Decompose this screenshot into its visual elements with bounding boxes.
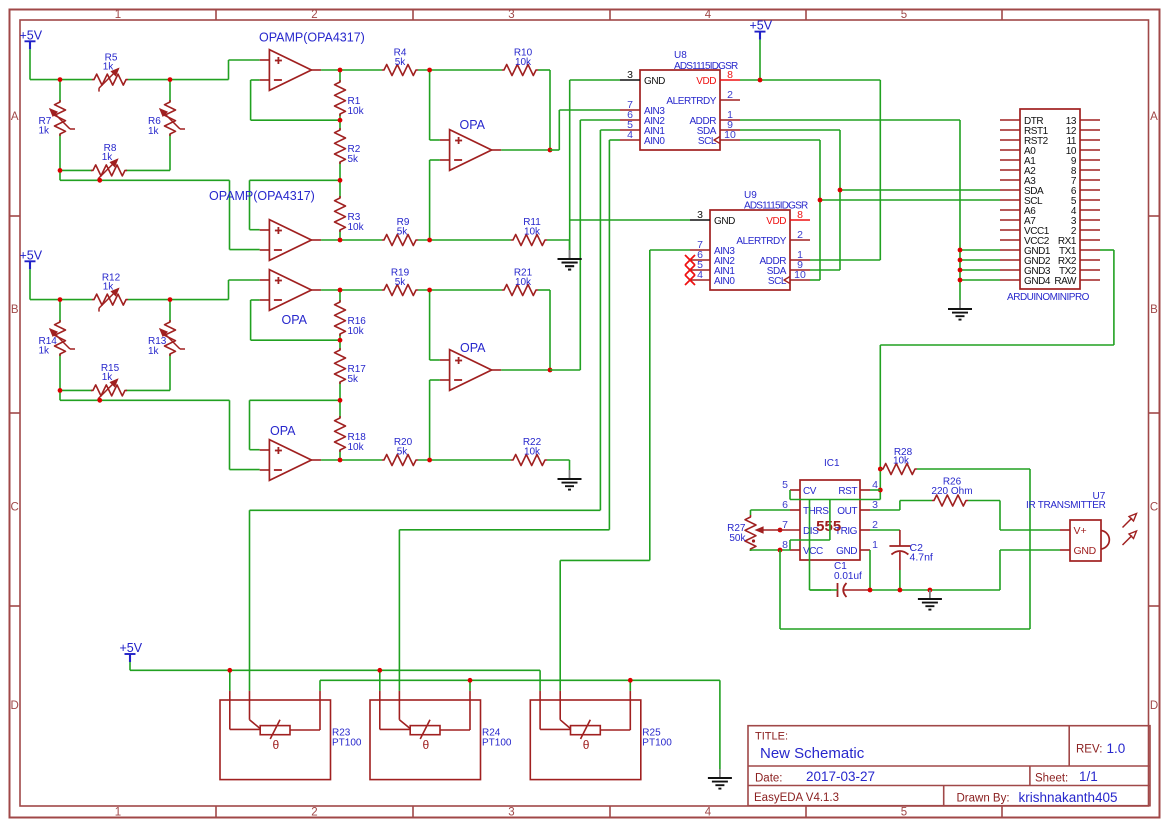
- svg-text:+5V: +5V: [750, 19, 773, 33]
- svg-text:10k: 10k: [348, 222, 365, 233]
- svg-text:A: A: [11, 111, 19, 123]
- svg-text:V+: V+: [1074, 525, 1087, 537]
- svg-text:+5V: +5V: [20, 28, 43, 42]
- svg-text:5k: 5k: [395, 57, 407, 68]
- svg-text:REV:: REV:: [1076, 744, 1102, 756]
- svg-text:10k: 10k: [524, 447, 541, 458]
- svg-text:5k: 5k: [395, 277, 407, 288]
- svg-text:3: 3: [697, 209, 703, 221]
- svg-text:SCL: SCL: [768, 276, 787, 287]
- svg-text:GND: GND: [836, 546, 857, 557]
- svg-text:2: 2: [311, 807, 317, 819]
- svg-text:PT100: PT100: [332, 738, 362, 749]
- svg-text:ALERTRDY: ALERTRDY: [736, 236, 786, 247]
- svg-text:OPA: OPA: [282, 313, 308, 327]
- svg-text:OPAMP(OPA4317): OPAMP(OPA4317): [259, 31, 365, 45]
- svg-text:+5V: +5V: [20, 248, 43, 262]
- svg-text:B: B: [1150, 304, 1158, 316]
- svg-text:CV: CV: [803, 486, 817, 497]
- svg-text:GND: GND: [714, 216, 735, 227]
- svg-text:SCL: SCL: [698, 136, 717, 147]
- svg-text:3: 3: [508, 9, 514, 21]
- svg-text:2: 2: [727, 89, 733, 101]
- svg-text:1.0: 1.0: [1107, 741, 1126, 756]
- svg-text:10k: 10k: [348, 326, 365, 337]
- svg-text:10k: 10k: [515, 277, 532, 288]
- svg-text:1k: 1k: [103, 282, 115, 293]
- svg-text:10k: 10k: [348, 442, 365, 453]
- svg-text:1k: 1k: [148, 126, 160, 137]
- svg-text:3: 3: [508, 807, 514, 819]
- svg-text:GND4: GND4: [1024, 276, 1051, 287]
- svg-text:OPA: OPA: [460, 118, 486, 132]
- svg-text:VCC: VCC: [803, 546, 823, 557]
- svg-text:RST: RST: [838, 486, 857, 497]
- svg-text:B: B: [11, 304, 19, 316]
- svg-text:U8: U8: [674, 50, 687, 61]
- svg-text:50k: 50k: [729, 533, 746, 544]
- svg-text:1: 1: [115, 807, 121, 819]
- svg-text:θ: θ: [273, 738, 280, 752]
- svg-text:2017-03-27: 2017-03-27: [806, 769, 875, 784]
- svg-text:5: 5: [901, 9, 907, 21]
- svg-text:10k: 10k: [524, 227, 541, 238]
- svg-text:D: D: [11, 700, 19, 712]
- svg-text:ARDUINOMINIPRO: ARDUINOMINIPRO: [1007, 292, 1090, 303]
- svg-text:U9: U9: [744, 190, 757, 201]
- svg-text:10: 10: [724, 129, 736, 141]
- svg-text:220 Ohm: 220 Ohm: [931, 486, 972, 497]
- svg-text:PT100: PT100: [642, 738, 672, 749]
- svg-text:2: 2: [797, 229, 803, 241]
- svg-text:RAW: RAW: [1054, 276, 1077, 287]
- svg-text:EasyEDA V4.1.3: EasyEDA V4.1.3: [754, 792, 839, 804]
- svg-text:1k: 1k: [39, 346, 51, 357]
- svg-text:D: D: [1150, 700, 1158, 712]
- svg-text:Sheet:: Sheet:: [1035, 773, 1068, 785]
- svg-text:4.7nf: 4.7nf: [910, 552, 933, 564]
- svg-text:10k: 10k: [348, 106, 365, 117]
- svg-text:1/1: 1/1: [1079, 769, 1098, 784]
- svg-text:A: A: [1150, 111, 1158, 123]
- svg-text:θ: θ: [423, 738, 430, 752]
- svg-text:Drawn By:: Drawn By:: [957, 793, 1010, 805]
- svg-text:GND: GND: [1074, 545, 1097, 557]
- svg-text:GND: GND: [644, 76, 665, 87]
- svg-text:1k: 1k: [103, 62, 115, 73]
- svg-text:5: 5: [901, 807, 907, 819]
- svg-text:OPA: OPA: [460, 341, 486, 355]
- svg-text:10k: 10k: [893, 456, 910, 467]
- svg-text:1k: 1k: [102, 152, 114, 163]
- svg-text:C: C: [1150, 502, 1158, 514]
- svg-text:IC1: IC1: [824, 458, 840, 469]
- svg-text:4: 4: [705, 807, 712, 819]
- svg-text:5k: 5k: [397, 447, 409, 458]
- svg-text:+5V: +5V: [120, 641, 143, 655]
- svg-text:IR TRANSMITTER: IR TRANSMITTER: [1026, 500, 1106, 511]
- svg-text:θ: θ: [583, 738, 590, 752]
- svg-text:New Schematic: New Schematic: [760, 745, 865, 762]
- svg-text:1k: 1k: [39, 126, 51, 137]
- svg-text:10k: 10k: [515, 57, 532, 68]
- svg-text:4: 4: [697, 269, 703, 281]
- svg-text:OPA: OPA: [270, 424, 296, 438]
- svg-text:2: 2: [311, 9, 317, 21]
- svg-text:ALERTRDY: ALERTRDY: [666, 96, 716, 107]
- svg-text:4: 4: [627, 129, 633, 141]
- svg-text:VDD: VDD: [696, 76, 716, 87]
- svg-text:Date:: Date:: [755, 773, 783, 785]
- svg-text:0.01uf: 0.01uf: [834, 571, 862, 582]
- svg-text:OPAMP(OPA4317): OPAMP(OPA4317): [209, 189, 315, 203]
- svg-text:ADS1115IDGSR: ADS1115IDGSR: [744, 201, 808, 212]
- svg-text:1: 1: [115, 9, 121, 21]
- svg-text:AIN0: AIN0: [644, 136, 665, 147]
- svg-text:PT100: PT100: [482, 738, 512, 749]
- svg-text:TITLE:: TITLE:: [755, 731, 788, 743]
- svg-text:ADS1115IDGSR: ADS1115IDGSR: [674, 61, 738, 72]
- svg-text:5k: 5k: [348, 374, 360, 385]
- svg-text:VDD: VDD: [766, 216, 786, 227]
- svg-text:THRS: THRS: [803, 506, 829, 517]
- svg-text:C: C: [11, 502, 19, 514]
- svg-text:10: 10: [794, 269, 806, 281]
- svg-text:5k: 5k: [397, 227, 409, 238]
- svg-text:krishnakanth405: krishnakanth405: [1019, 790, 1118, 805]
- svg-text:1: 1: [872, 539, 878, 551]
- svg-text:555: 555: [816, 518, 841, 535]
- svg-text:3: 3: [627, 69, 633, 81]
- svg-text:1k: 1k: [148, 346, 160, 357]
- svg-text:OUT: OUT: [837, 506, 857, 517]
- svg-text:4: 4: [705, 9, 712, 21]
- svg-text:1k: 1k: [102, 372, 114, 383]
- svg-text:5: 5: [782, 479, 788, 491]
- svg-text:5k: 5k: [348, 154, 360, 165]
- svg-text:AIN0: AIN0: [714, 276, 735, 287]
